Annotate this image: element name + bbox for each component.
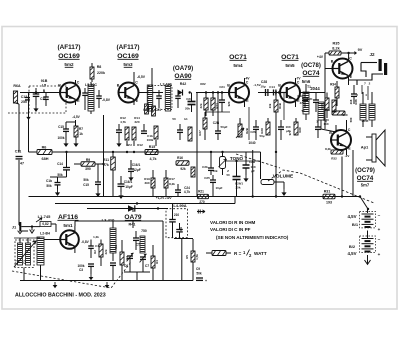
svg-text:-7V: -7V bbox=[296, 77, 302, 81]
svg-text:5m7: 5m7 bbox=[361, 183, 370, 188]
svg-text:32k: 32k bbox=[199, 103, 203, 108]
svg-text:C31: C31 bbox=[307, 97, 313, 101]
svg-text:VALORI DI R IN OHM: VALORI DI R IN OHM bbox=[210, 220, 256, 225]
svg-text:92U: 92U bbox=[126, 143, 132, 147]
svg-text:1,5k: 1,5k bbox=[195, 254, 199, 260]
svg-text:50k: 50k bbox=[83, 178, 89, 182]
svg-text:50: 50 bbox=[226, 173, 230, 177]
svg-text:10μ: 10μ bbox=[260, 85, 265, 89]
svg-text:50μ: 50μ bbox=[260, 134, 265, 138]
svg-text:R33: R33 bbox=[324, 108, 330, 112]
svg-text:+12V: +12V bbox=[164, 196, 171, 200]
svg-text:C: C bbox=[246, 81, 249, 85]
svg-text:B: B bbox=[58, 84, 61, 88]
svg-text:R21: R21 bbox=[198, 190, 204, 194]
svg-text:R22: R22 bbox=[200, 82, 206, 86]
svg-text:C14: C14 bbox=[57, 162, 63, 166]
svg-text:R12: R12 bbox=[137, 143, 143, 147]
svg-text:R7: R7 bbox=[79, 127, 83, 131]
svg-text:C: C bbox=[77, 81, 80, 85]
svg-text:(AF117): (AF117) bbox=[116, 44, 139, 51]
svg-text:100k: 100k bbox=[57, 136, 64, 140]
svg-text:C32: C32 bbox=[297, 94, 303, 98]
svg-text:8,2k: 8,2k bbox=[325, 147, 331, 151]
svg-text:WATT: WATT bbox=[254, 251, 267, 256]
svg-text:91B: 91B bbox=[41, 79, 48, 83]
svg-text:50k: 50k bbox=[212, 169, 217, 173]
svg-text:R2B: R2B bbox=[245, 128, 249, 134]
svg-text:R2: R2 bbox=[93, 250, 97, 254]
svg-text:C16/1: C16/1 bbox=[132, 163, 141, 167]
svg-text:C: C bbox=[297, 81, 300, 85]
svg-text:R =: R = bbox=[234, 251, 242, 256]
svg-text:R1: R1 bbox=[114, 245, 118, 249]
svg-text:R29: R29 bbox=[298, 127, 302, 133]
svg-text:8,2k: 8,2k bbox=[332, 47, 340, 51]
svg-text:4,7k: 4,7k bbox=[184, 190, 190, 194]
svg-text:L2-190: L2-190 bbox=[160, 83, 171, 87]
svg-text:22k: 22k bbox=[104, 249, 108, 254]
svg-text:R15: R15 bbox=[149, 145, 156, 149]
svg-text:10μF: 10μF bbox=[215, 186, 222, 190]
svg-text:C24: C24 bbox=[219, 85, 225, 89]
svg-text:B/2: B/2 bbox=[349, 244, 356, 249]
svg-text:C1b: C1b bbox=[46, 179, 52, 183]
svg-text:-1,5V: -1,5V bbox=[253, 83, 260, 87]
svg-text:C2: C2 bbox=[23, 260, 27, 264]
svg-text:C25: C25 bbox=[204, 176, 210, 180]
svg-text:C: C bbox=[348, 128, 351, 132]
svg-text:−: − bbox=[378, 213, 381, 218]
svg-text:50μF: 50μF bbox=[220, 125, 227, 129]
svg-text:−: − bbox=[378, 237, 381, 242]
svg-text:C2B: C2B bbox=[213, 121, 220, 125]
svg-text:R5: R5 bbox=[185, 255, 189, 259]
svg-text:2044: 2044 bbox=[310, 86, 320, 91]
svg-text:J2: J2 bbox=[369, 52, 375, 57]
svg-text:VALORI DI C IN PF: VALORI DI C IN PF bbox=[210, 227, 251, 232]
svg-text:R28: R28 bbox=[260, 128, 264, 134]
svg-text:4,7k: 4,7k bbox=[150, 157, 157, 161]
svg-text:μF: μF bbox=[251, 169, 255, 173]
svg-text:2045: 2045 bbox=[362, 119, 369, 123]
svg-text:750: 750 bbox=[141, 229, 147, 233]
svg-text:12μF: 12μF bbox=[133, 168, 140, 172]
svg-text:390: 390 bbox=[144, 181, 149, 185]
svg-text:(SE NON ALTRIMENTI INDICATO): (SE NON ALTRIMENTI INDICATO) bbox=[216, 235, 289, 240]
svg-text:B: B bbox=[278, 84, 281, 88]
svg-text:(OC79): (OC79) bbox=[355, 168, 375, 174]
svg-text:13k: 13k bbox=[268, 103, 272, 108]
svg-text:+: + bbox=[205, 279, 207, 283]
svg-text:250: 250 bbox=[21, 100, 27, 104]
svg-text:210: 210 bbox=[174, 213, 180, 217]
svg-text:-4V: -4V bbox=[245, 77, 251, 81]
svg-text:-0,8V: -0,8V bbox=[81, 240, 89, 244]
svg-text:C7: C7 bbox=[145, 264, 149, 268]
svg-text:47: 47 bbox=[20, 162, 24, 166]
svg-text:C14: C14 bbox=[269, 85, 275, 89]
svg-text:-2V: -2V bbox=[345, 154, 350, 158]
svg-text:5m3: 5m3 bbox=[123, 62, 133, 67]
svg-text:+: + bbox=[378, 252, 381, 257]
svg-text:5m5: 5m5 bbox=[285, 63, 295, 68]
svg-text:(OC78): (OC78) bbox=[301, 63, 321, 69]
svg-text:R42: R42 bbox=[180, 82, 187, 86]
svg-text:50: 50 bbox=[172, 117, 176, 121]
svg-text:ALLOCCHIO BACCHINI - MOD. 2023: ALLOCCHIO BACCHINI - MOD. 2023 bbox=[15, 293, 106, 299]
svg-text:50k: 50k bbox=[57, 173, 63, 177]
svg-text:270: 270 bbox=[199, 200, 205, 204]
svg-text:(AF117): (AF117) bbox=[57, 44, 80, 51]
svg-text:1,2k: 1,2k bbox=[93, 235, 99, 239]
svg-text:Ap1: Ap1 bbox=[361, 145, 369, 150]
svg-text:R4: R4 bbox=[155, 260, 159, 264]
svg-text:C26: C26 bbox=[250, 130, 256, 134]
svg-text:k1: k1 bbox=[184, 117, 188, 121]
svg-text:B/1: B/1 bbox=[352, 222, 359, 227]
svg-text:C3: C3 bbox=[79, 268, 83, 272]
svg-text:C2b: C2b bbox=[202, 165, 208, 169]
svg-text:100k: 100k bbox=[147, 138, 154, 142]
svg-text:1k: 1k bbox=[79, 132, 83, 136]
svg-text:970: 970 bbox=[288, 130, 292, 135]
svg-text:R1B: R1B bbox=[278, 103, 282, 109]
svg-text:R6A: R6A bbox=[13, 84, 21, 88]
svg-text:R34: R34 bbox=[330, 83, 336, 87]
svg-text:220k: 220k bbox=[97, 71, 105, 75]
svg-text:4,5V: 4,5V bbox=[347, 214, 356, 219]
svg-text:50k: 50k bbox=[46, 184, 52, 188]
svg-text:8,2k: 8,2k bbox=[169, 182, 175, 186]
svg-text:C16/1: C16/1 bbox=[124, 180, 133, 184]
svg-text:R8: R8 bbox=[97, 65, 102, 69]
svg-text:1040: 1040 bbox=[248, 141, 255, 145]
svg-text:10μF: 10μF bbox=[125, 185, 132, 189]
svg-text:J1: J1 bbox=[12, 225, 17, 230]
svg-text:C19: C19 bbox=[143, 108, 149, 112]
svg-text:5m2: 5m2 bbox=[64, 62, 74, 67]
svg-text:27k: 27k bbox=[103, 163, 109, 167]
svg-text:0,82: 0,82 bbox=[42, 222, 48, 226]
svg-text:-6,5V: -6,5V bbox=[137, 75, 146, 79]
svg-text:R17: R17 bbox=[169, 177, 175, 181]
svg-text:B: B bbox=[117, 84, 120, 88]
svg-text:500: 500 bbox=[349, 117, 353, 122]
svg-text:R6: R6 bbox=[42, 146, 47, 150]
svg-text:68H: 68H bbox=[42, 157, 49, 161]
svg-text:C15: C15 bbox=[83, 183, 89, 187]
svg-text:R27: R27 bbox=[198, 130, 202, 136]
svg-text:47k: 47k bbox=[300, 101, 305, 105]
svg-text:R9: R9 bbox=[86, 158, 90, 162]
svg-text:+4V: +4V bbox=[317, 55, 324, 59]
svg-text:B: B bbox=[331, 60, 334, 64]
svg-text:C: C bbox=[349, 57, 352, 61]
svg-text:L2-8H: L2-8H bbox=[40, 232, 50, 236]
svg-text:T1: T1 bbox=[301, 109, 305, 113]
svg-text:C6: C6 bbox=[124, 264, 128, 268]
svg-text:220: 220 bbox=[134, 120, 139, 124]
svg-text:(OA79): (OA79) bbox=[173, 65, 193, 72]
svg-text:390: 390 bbox=[85, 167, 91, 171]
svg-text:R35: R35 bbox=[333, 42, 340, 46]
svg-text:+: + bbox=[378, 227, 381, 232]
svg-text:R31: R31 bbox=[324, 190, 331, 194]
svg-text:C: C bbox=[135, 81, 138, 85]
svg-text:C2B: C2B bbox=[249, 160, 256, 164]
svg-text:4,5V: 4,5V bbox=[347, 251, 356, 256]
svg-text:B: B bbox=[227, 84, 230, 88]
svg-text:T1: T1 bbox=[307, 85, 311, 89]
svg-text:L5: L5 bbox=[42, 84, 46, 88]
svg-text:5m6: 5m6 bbox=[302, 79, 311, 84]
svg-text:92k: 92k bbox=[180, 167, 186, 171]
svg-text:C9: C9 bbox=[196, 267, 200, 271]
svg-text:R36: R36 bbox=[354, 99, 358, 105]
svg-text:9V: 9V bbox=[358, 48, 363, 52]
svg-text:218: 218 bbox=[349, 99, 353, 104]
svg-text:C28: C28 bbox=[261, 80, 267, 84]
svg-text:20k: 20k bbox=[185, 107, 190, 111]
svg-text:50k: 50k bbox=[196, 272, 202, 276]
svg-text:-4,5V: -4,5V bbox=[72, 115, 80, 119]
svg-text:4,7k: 4,7k bbox=[120, 120, 126, 124]
svg-text:C15: C15 bbox=[58, 125, 64, 129]
svg-text:-0,8V: -0,8V bbox=[102, 98, 111, 102]
svg-text:C21: C21 bbox=[155, 108, 161, 112]
svg-text:193: 193 bbox=[326, 201, 332, 205]
svg-text:R32: R32 bbox=[331, 157, 337, 161]
svg-text:920: 920 bbox=[227, 101, 231, 106]
svg-text:5m4: 5m4 bbox=[233, 63, 243, 68]
svg-text:R41: R41 bbox=[129, 223, 136, 227]
svg-text:100: 100 bbox=[342, 113, 347, 117]
svg-text:C11: C11 bbox=[15, 150, 21, 154]
svg-text:R16: R16 bbox=[177, 156, 183, 160]
svg-text:5m1: 5m1 bbox=[63, 223, 73, 228]
